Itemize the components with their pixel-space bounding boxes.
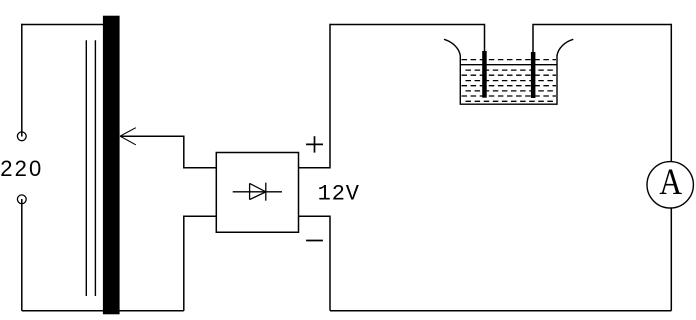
terminal circle upper bbox=[17, 132, 26, 141]
electrolytic cell beaker walls and bottom bbox=[444, 39, 573, 104]
terminal circle lower bbox=[17, 195, 26, 204]
wire: primary left vertical upper bbox=[21, 24, 23, 137]
wire: ammeter to bottom bbox=[670, 208, 672, 311]
diode D inside rectifier bbox=[233, 183, 282, 201]
label + bbox=[306, 136, 323, 152]
ammeter circle bbox=[647, 162, 693, 208]
transformer T primary winding line 2 bbox=[94, 40, 96, 296]
liquid surface line bbox=[460, 64, 557, 66]
transformer T core bar bbox=[103, 16, 120, 315]
transformer T primary winding line 1 bbox=[85, 40, 87, 296]
wire: cell right electrode to top right bbox=[533, 25, 671, 53]
liquid hatch dashes bbox=[462, 60, 557, 102]
wire: bottom to rectifier input bottom bbox=[184, 216, 217, 311]
label - bbox=[306, 240, 323, 242]
wire: primary top horizontal bbox=[22, 24, 103, 26]
wire: primary bottom horizontal bbox=[22, 310, 184, 312]
svg-text:220: 220 bbox=[0, 156, 43, 181]
beaker left flare bbox=[444, 39, 460, 55]
tap arrow on core bbox=[120, 128, 136, 145]
wire: tap to rectifier input top bbox=[120, 136, 216, 168]
rectifier bridge box bbox=[216, 153, 298, 233]
electrode right bbox=[531, 52, 536, 98]
svg-text:12V: 12V bbox=[318, 182, 360, 207]
wire: primary left vertical lower bbox=[21, 199, 23, 311]
wire: right vertical to ammeter bbox=[670, 24, 672, 162]
beaker right flare bbox=[557, 39, 573, 55]
wire: rectifier - output to bottom bbox=[299, 216, 331, 311]
wire: rectifier + output to top bbox=[299, 24, 331, 168]
svg-text:A: A bbox=[659, 162, 682, 203]
electrode left bbox=[482, 51, 487, 98]
wire: bottom right horizontal bbox=[330, 310, 671, 312]
wire: top to cell left electrode bbox=[330, 25, 485, 53]
